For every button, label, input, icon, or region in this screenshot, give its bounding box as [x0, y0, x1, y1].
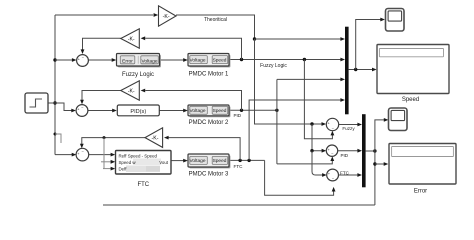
- svg-text:-K-: -K-: [128, 88, 135, 94]
- svg-text:Voltage: Voltage: [189, 158, 205, 164]
- svg-text:Speed: Speed: [213, 58, 227, 64]
- svg-text:Voltage: Voltage: [141, 58, 157, 64]
- svg-text:FTC: FTC: [137, 182, 149, 188]
- svg-text:PMDC Motor 1: PMDC Motor 1: [189, 71, 229, 77]
- svg-text:FTC: FTC: [340, 170, 350, 175]
- svg-text:Fuzzy Logic: Fuzzy Logic: [260, 63, 287, 69]
- svg-text:Deff: Deff: [119, 167, 128, 172]
- svg-text:Voltage: Voltage: [189, 58, 205, 64]
- svg-text:PID(s): PID(s): [130, 109, 146, 115]
- svg-text:Error: Error: [414, 188, 427, 194]
- svg-text:-K-: -K-: [163, 14, 170, 20]
- svg-text:PMDC Motor 2: PMDC Motor 2: [189, 120, 229, 126]
- svg-text:Speed w: Speed w: [119, 160, 137, 165]
- svg-text:Theoritical: Theoritical: [204, 17, 227, 23]
- svg-text:Error: Error: [122, 58, 133, 64]
- svg-text:Vout: Vout: [159, 160, 169, 165]
- svg-text:Fuzzy Logic: Fuzzy Logic: [122, 72, 154, 78]
- svg-text:Reff Speed - Speed: Reff Speed - Speed: [119, 154, 158, 159]
- svg-text:-K-: -K-: [152, 135, 159, 141]
- svg-text:Speed: Speed: [402, 97, 419, 103]
- svg-text:-K-: -K-: [128, 36, 135, 42]
- svg-text:PMDC Motor 3: PMDC Motor 3: [189, 172, 229, 178]
- svg-text:Speed: Speed: [213, 158, 227, 164]
- svg-text:Speed: Speed: [213, 108, 227, 114]
- svg-text:Voltage: Voltage: [189, 108, 205, 114]
- svg-text:Fuzzy: Fuzzy: [342, 126, 355, 131]
- svg-text:PID: PID: [340, 153, 348, 158]
- svg-text:PID: PID: [233, 113, 241, 118]
- svg-text:FTC: FTC: [234, 164, 244, 169]
